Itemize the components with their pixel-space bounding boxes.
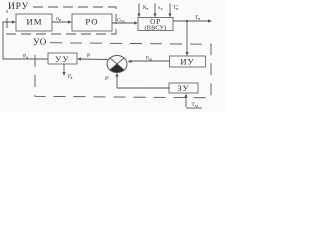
svg-text:ИРУ: ИРУ <box>8 2 29 12</box>
setpoint arrow Тзд into ЗУ <box>185 96 187 107</box>
output wire Тв <box>173 20 209 22</box>
block УУ <box>48 53 77 64</box>
svg-text:Nв: Nв <box>143 5 149 11</box>
wire ИМ to РО <box>52 21 69 23</box>
disturbance arrow ху <box>154 4 156 15</box>
block ИМ <box>16 14 52 31</box>
wire Тв down to ИУ <box>186 21 188 54</box>
svg-text:УУ: УУ <box>55 55 70 64</box>
node on Тв wire <box>186 20 188 22</box>
disturbance arrow Т̃в <box>169 4 171 15</box>
wire comparator to УУ, label Р <box>80 58 108 61</box>
vent stub under УУ, label Р̄ <box>63 64 65 73</box>
svg-text:ху: ху <box>158 5 163 11</box>
svg-text:Р: Р <box>87 53 90 59</box>
wire ЗУ to comparator, label Р' <box>116 75 118 88</box>
wire horizontal from ЗУ <box>117 87 169 89</box>
svg-text:пв: пв <box>56 16 61 22</box>
block РО <box>72 14 112 31</box>
block ЗУ <box>169 83 198 93</box>
svg-text:Gгв: Gгв <box>117 18 125 24</box>
svg-text:Тзд: Тзд <box>192 102 199 108</box>
svg-text:ИМ: ИМ <box>26 16 42 26</box>
svg-text:Тв: Тв <box>195 15 200 21</box>
svg-text:Рв: Рв <box>23 54 28 60</box>
svg-text:ИУ: ИУ <box>180 57 194 67</box>
svg-text:(ВВСУ): (ВВСУ) <box>144 25 166 32</box>
svg-text:РО: РО <box>85 16 98 26</box>
block ОР (ВВСУ) <box>138 18 173 31</box>
svg-text:Р': Р' <box>105 76 109 82</box>
wire ИУ to comparator, label Риз <box>130 60 170 62</box>
dashed box УО <box>35 43 211 98</box>
comparator (summing junction) <box>107 56 127 73</box>
wire УУ feedback to ИМ, label Рв <box>3 22 48 59</box>
disturbance arrow Nв <box>138 4 140 15</box>
svg-text:ЗУ: ЗУ <box>178 84 190 93</box>
svg-text:УО: УО <box>33 37 47 47</box>
svg-text:Т̃в: Т̃в <box>173 4 178 11</box>
svg-text:Риз: Риз <box>146 57 153 62</box>
dashed box ИРУ <box>7 7 116 34</box>
wire РО to ОР, label Gгв <box>112 22 135 24</box>
svg-text:Р̄в: Р̄в <box>68 75 73 80</box>
block ИУ <box>170 56 206 67</box>
